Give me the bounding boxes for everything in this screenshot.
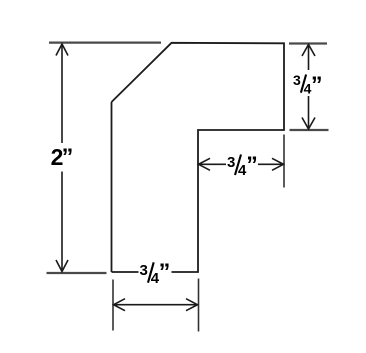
extension line top-left (2in dim, top) — [49, 41, 161, 43]
arrow up (2in) — [56, 44, 68, 56]
dimension line 3/4in horizontal middle (y=164.3) — [200, 163, 227, 165]
svg-text:”: ” — [246, 151, 258, 177]
dimension line 3/4in vertical (x=308.5) — [308, 46, 310, 71]
label 3/4" (right) — [293, 72, 323, 98]
arrow right (3/4 bottom) — [186, 299, 198, 311]
label 3/4" (middle) — [227, 151, 258, 179]
arrow up (3/4 right) — [302, 45, 315, 57]
label 3/4" (bottom) — [140, 259, 171, 288]
dimension line 3/4in bottom (y=304.7) — [115, 304, 196, 306]
arrow right (3/4 mid) — [272, 158, 284, 170]
arrow left (3/4 bottom) — [114, 299, 126, 311]
extension line mid-right (3/4 vertical dim, bottom) — [290, 129, 329, 131]
profile outline (L-shape with chamfer) — [112, 43, 285, 272]
arrow down (2in) — [56, 260, 68, 272]
svg-text:3: 3 — [293, 72, 301, 88]
extension line top-right (3/4 vertical dim, top) — [289, 42, 327, 44]
arrow down (3/4 right) — [302, 118, 315, 130]
svg-text:3: 3 — [140, 262, 148, 279]
extension line bottom-left (2in dim, bottom) — [47, 272, 107, 274]
dimension line 2in (vertical, x=62) — [61, 45, 63, 143]
extension line below-left (3/4 bottom dim) — [112, 280, 114, 331]
extension line below-right (3/4 bottom dim) — [198, 279, 200, 332]
extension line below step corner (3/4 horizontal dim) — [283, 135, 285, 188]
svg-text:”: ” — [311, 72, 323, 98]
svg-text:3: 3 — [227, 154, 235, 171]
svg-text:”: ” — [62, 144, 73, 170]
arrow left (3/4 mid) — [199, 158, 211, 170]
svg-text:”: ” — [159, 259, 171, 285]
